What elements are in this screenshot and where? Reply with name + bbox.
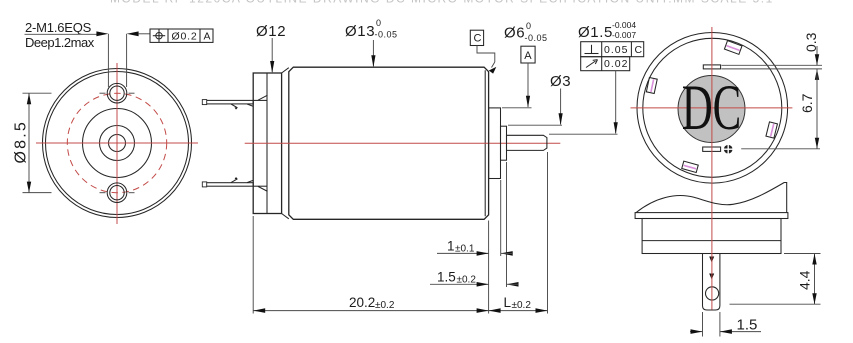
svg-text:-0.004: -0.004 (612, 20, 636, 30)
svg-text:A: A (524, 50, 532, 62)
svg-text:1.5: 1.5 (737, 317, 758, 334)
magnet segment right (766, 122, 777, 138)
front view outer circle Ø13 (43, 69, 192, 218)
feature control frame: perpendicularity 0.05 C (581, 42, 644, 57)
svg-text:L: L (504, 295, 512, 310)
shaft Ø1.5 with chamfered end (507, 135, 547, 150)
dimension 0.3 line and arrows (815, 46, 819, 80)
svg-text:±0.2: ±0.2 (512, 300, 532, 311)
rear view outer circle (637, 33, 788, 184)
callout text 2-M1.6EQS (25, 20, 92, 35)
extension line cap left face (252, 216, 254, 314)
brush bar bottom (703, 147, 721, 151)
leader arrow pointing left into hole tangent (127, 31, 150, 36)
front view hub circle Ø3 (100, 126, 135, 161)
screw symbol (circle with cross) (723, 144, 733, 154)
screw hole bottom (2-M1.6) (100, 183, 135, 203)
svg-text:±0.1: ±0.1 (455, 244, 475, 255)
svg-text:±0.2: ±0.2 (375, 300, 395, 311)
bottom view flange (635, 213, 788, 219)
Ø6 boss extension line (502, 107, 532, 109)
callout text Deep1.2max (25, 35, 95, 50)
magnet segment top (724, 41, 742, 55)
label Ø3 leader arrow (559, 89, 563, 126)
feature control frame: position Ø0.2 A (150, 29, 213, 43)
svg-text:MODEL RF-1220CA OUTLINE DRAWIN: MODEL RF-1220CA OUTLINE DRAWING DC MICRO… (110, 0, 774, 5)
svg-text:0.3: 0.3 (803, 32, 819, 52)
shaft extension line for Ø1.5 (549, 133, 618, 135)
svg-text:1: 1 (447, 239, 455, 254)
label Ø6 with tolerance (504, 21, 548, 43)
dimension 0.3 text (rotated) (803, 32, 819, 52)
dimension L±0.2 (489, 295, 548, 313)
extension lines for 4.4 (730, 254, 821, 305)
svg-text:0.02: 0.02 (604, 58, 628, 70)
terminal top strip (202, 100, 253, 105)
svg-text:-0.007: -0.007 (612, 30, 636, 40)
datum A box (521, 46, 535, 63)
front view inner rim circle (46, 72, 189, 215)
svg-text:Ø6: Ø6 (504, 25, 525, 42)
dimension Ø8.5 text (rotated) (13, 120, 30, 164)
dimension 4.4 line and arrows (812, 254, 816, 305)
label Ø13 leader arrow (371, 40, 375, 67)
svg-text:Deep1.2max: Deep1.2max (25, 35, 95, 50)
label Ø13 with tolerance (345, 18, 398, 40)
label Ø12 leader arrow (270, 38, 274, 73)
screw hole top (2-M1.6) (100, 83, 135, 103)
datum A / Ø6 leader arrow (526, 63, 530, 108)
label Ø3 (550, 73, 571, 90)
dimension 20.2±0.2 (253, 295, 488, 313)
svg-text:DC: DC (682, 71, 742, 143)
datum C box (470, 30, 483, 45)
clipped title text at top edge (110, 0, 774, 5)
side view body inner line near right face (484, 70, 486, 216)
dimension Ø8.5 line with arrows (27, 93, 31, 192)
Ø1.5 leader arrow (614, 71, 618, 135)
front view shaft hole Ø1.5 (109, 135, 126, 152)
label Ø1.5 with tolerance (578, 20, 636, 41)
svg-text:20.2: 20.2 (349, 295, 375, 310)
svg-text:Ø1.5: Ø1.5 (578, 24, 613, 41)
dimension Ø8.5 extension lines (23, 93, 52, 192)
dimension 6.7 text (rotated) (799, 93, 815, 113)
Ø3 step extension line (508, 124, 562, 126)
dimension 6.7 line and arrows (815, 69, 819, 149)
side view motor body Ø13 outline with chamfered corners (289, 67, 489, 219)
dimension 1.5±0.2 (430, 270, 519, 287)
svg-text:Ø0.2: Ø0.2 (172, 31, 198, 43)
extension lines for 1.5 (terminal width) (703, 312, 720, 337)
svg-text:C: C (635, 44, 643, 56)
svg-text:Ø3: Ø3 (550, 73, 571, 90)
front view horizontal centerline (36, 142, 198, 144)
terminal crimp marks (709, 257, 714, 280)
rear view horizontal red centerline (631, 107, 793, 109)
bottom view body (642, 219, 781, 254)
feature control frame: runout 0.02 (581, 57, 630, 71)
svg-text:-0.05: -0.05 (525, 33, 548, 43)
svg-text:0: 0 (526, 21, 531, 31)
rear view inner circle (643, 38, 782, 177)
side view red centerline (245, 142, 561, 144)
magnet segment bottom-left (682, 161, 698, 172)
terminal bottom hook marks (231, 177, 268, 191)
svg-text:Ø8.5: Ø8.5 (13, 120, 30, 164)
dimension 1.5 line and arrows (690, 329, 761, 334)
front view boss circle Ø6 (83, 109, 152, 178)
svg-text:-0.05: -0.05 (375, 30, 398, 40)
svg-text:A: A (204, 31, 211, 43)
svg-text:0: 0 (376, 18, 381, 28)
screw hole leader extension lines (tangent) (108, 34, 126, 87)
terminal top hook marks (231, 95, 268, 109)
shaft boss Ø6 (489, 108, 501, 179)
svg-text:Ø12: Ø12 (256, 23, 286, 40)
extension line bottom bar (6.7) (741, 148, 820, 150)
svg-text:1.5: 1.5 (437, 270, 456, 285)
dimension 1±0.1 (437, 239, 513, 256)
bottom view wavy can silhouette (636, 183, 787, 213)
extension line boss end (500, 180, 502, 256)
shaft step Ø3 (501, 126, 507, 160)
DC logo text (682, 71, 742, 143)
extension line body right face (488, 221, 490, 314)
label Ø12 (256, 23, 286, 40)
callout underline and leader arrow right (25, 31, 109, 36)
datum C leader (477, 46, 496, 74)
terminal bottom strip (202, 182, 253, 187)
front view vertical centerline (116, 63, 118, 224)
bottom view red centerline lower part (711, 212, 713, 310)
svg-text:6.7: 6.7 (799, 93, 815, 113)
extension line step end (506, 162, 508, 287)
extension line shaft end (547, 152, 549, 314)
side view front cap Ø12 (253, 73, 281, 214)
svg-text:C: C (474, 33, 482, 45)
svg-text:Ø13: Ø13 (345, 23, 375, 40)
dimension 4.4 text (rotated) (797, 270, 813, 290)
brush bar top (703, 65, 720, 69)
svg-text:4.4: 4.4 (797, 270, 813, 290)
bottom terminal strip with hole (703, 254, 720, 311)
rear view vertical red centerline upper part (711, 27, 713, 212)
svg-text:2-M1.6EQS: 2-M1.6EQS (25, 20, 92, 35)
front view bolt circle (red dashed) Ø8.5 (67, 93, 166, 192)
cap to body transition diagonals (282, 68, 289, 219)
extension lines for 0.3 (bar thickness) (722, 65, 823, 69)
DC logo gray circle (678, 76, 745, 143)
magnet segment left (646, 78, 657, 94)
svg-text:0.05: 0.05 (604, 44, 628, 56)
dimension 1.5 text (737, 317, 758, 334)
